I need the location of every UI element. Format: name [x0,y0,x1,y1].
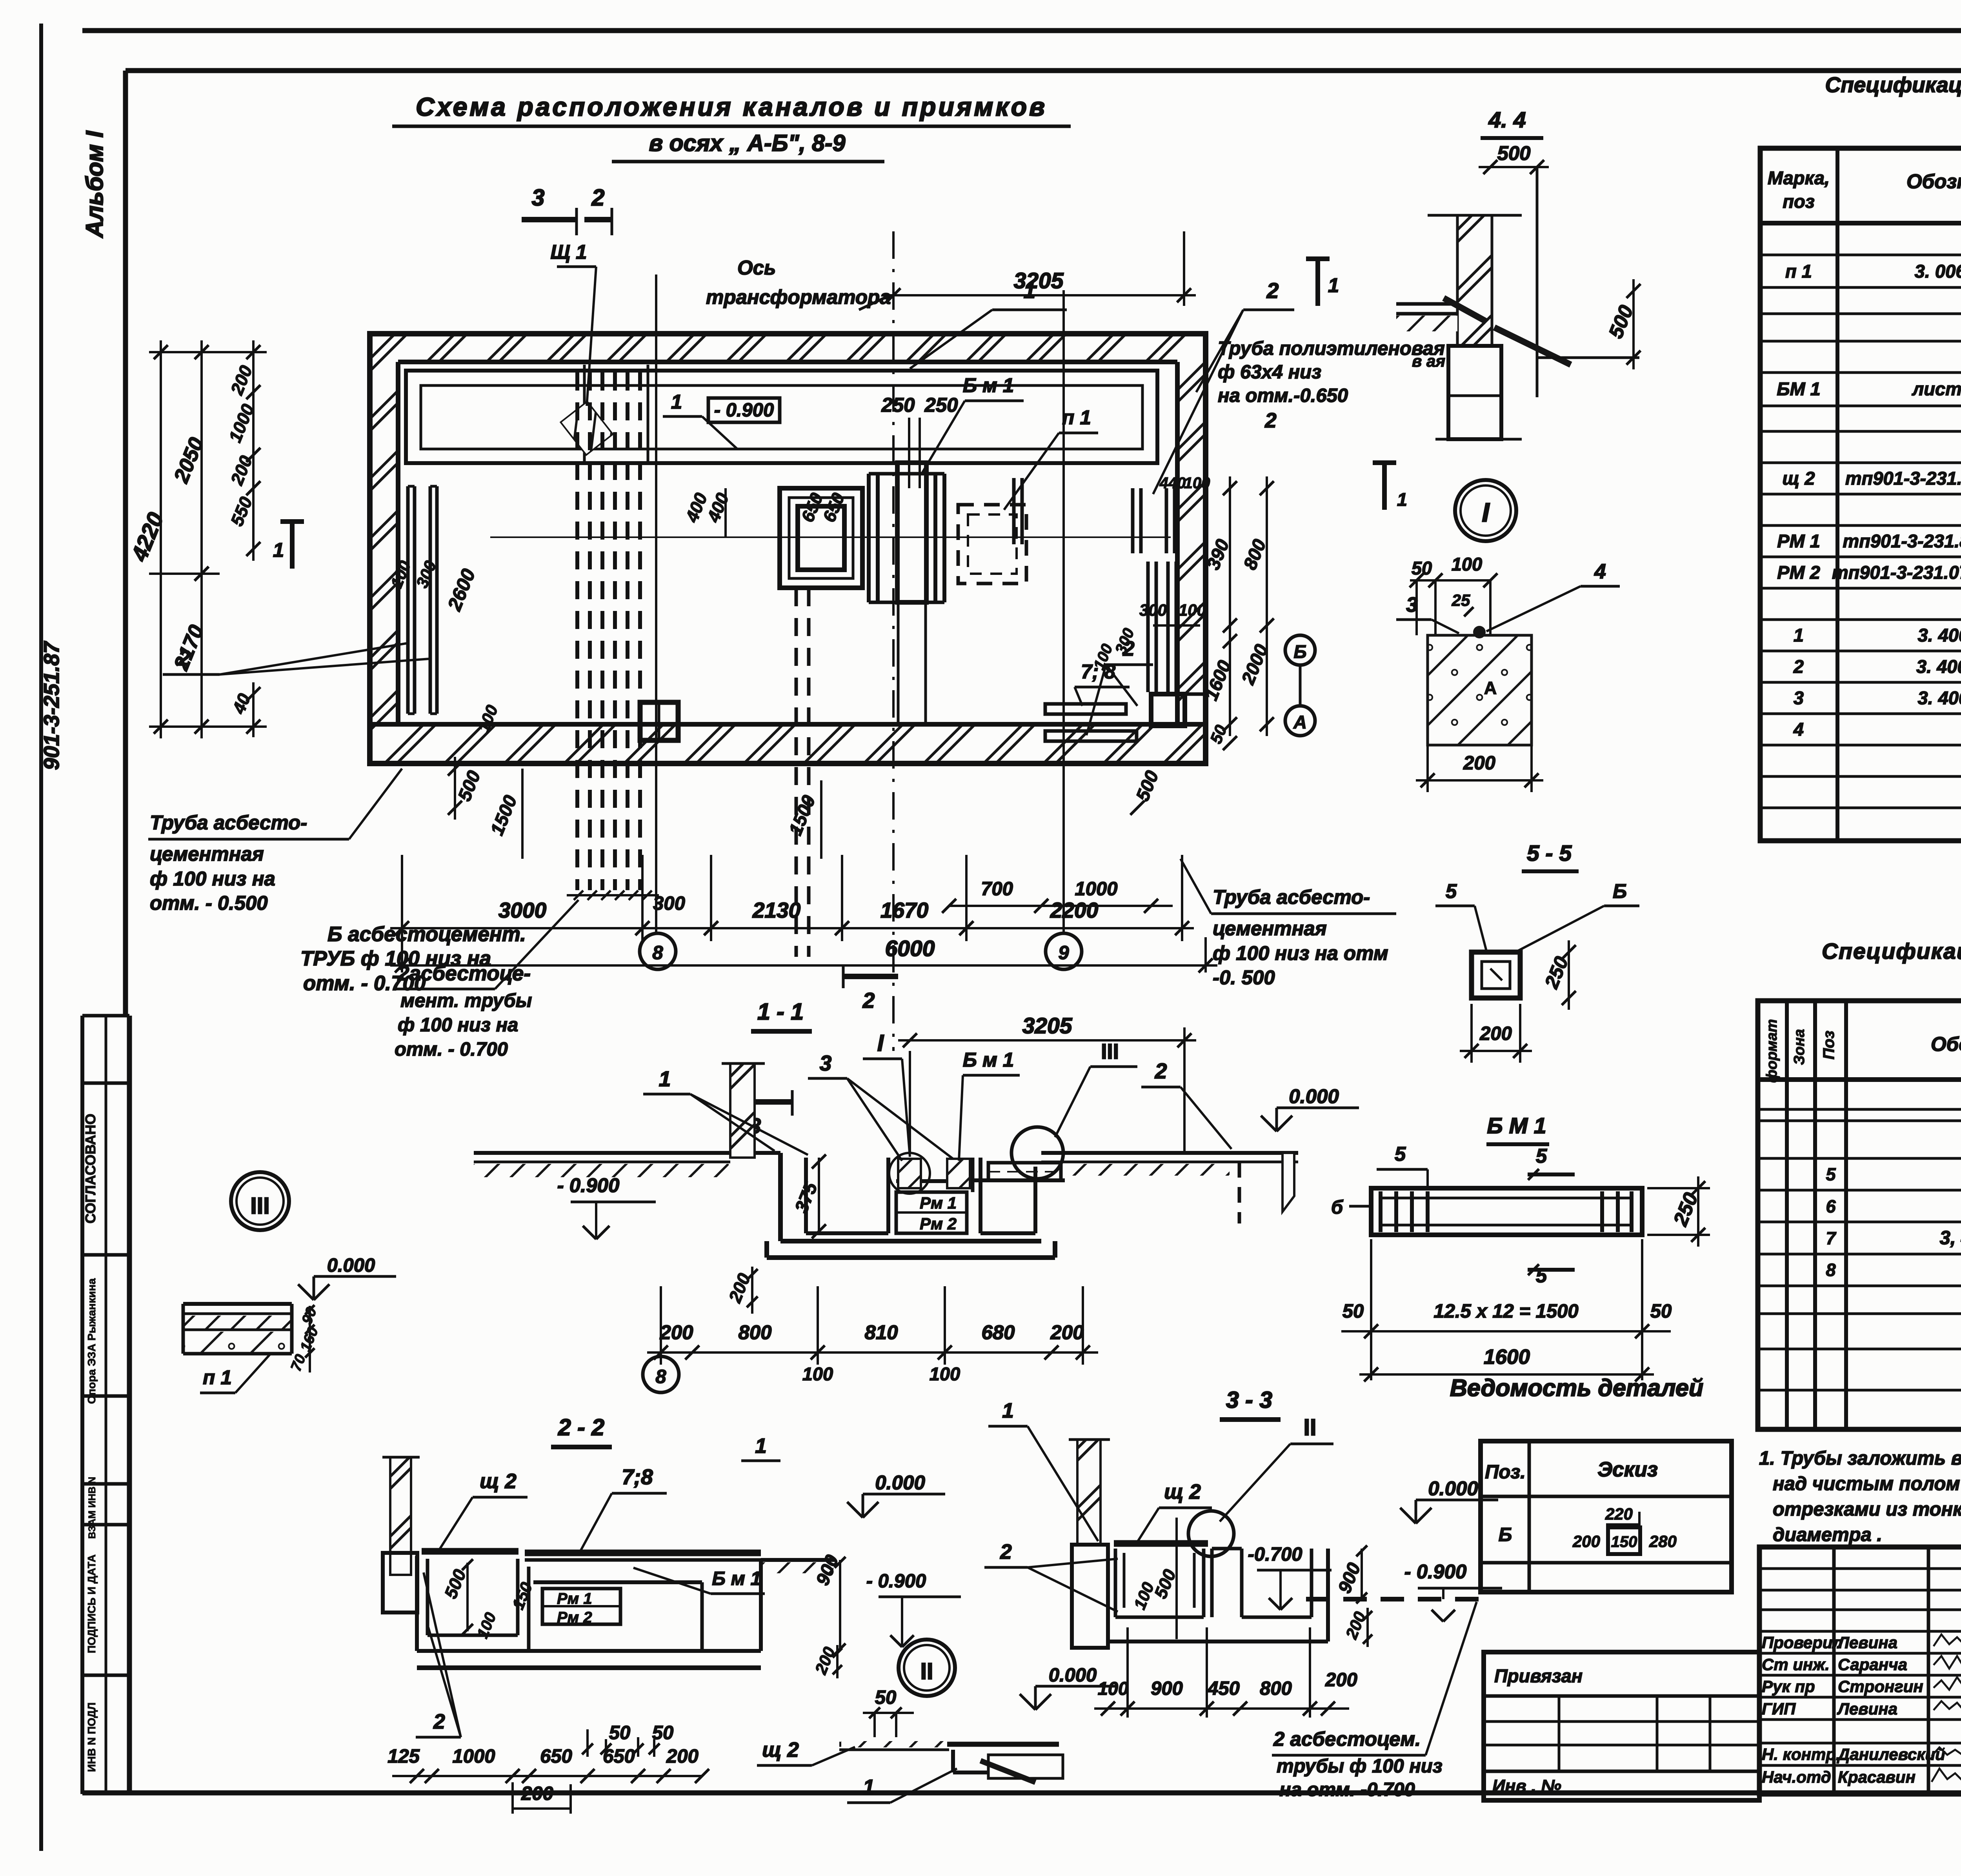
svg-text:III: III [1101,1039,1119,1063]
svg-text:тп901-3-231.07 кжи. 57.0.0.0:0: тп901-3-231.07 кжи. 57.0.0.0:01 [1832,562,1961,583]
svg-text:лист. кж - 32: лист. кж - 32 [1912,378,1961,399]
svg-text:4. 4: 4. 4 [1488,107,1526,133]
svg-text:Левина: Левина [1837,1700,1897,1718]
svg-text:Б м 1: Б м 1 [963,1049,1014,1071]
svg-text:Схема расположения каналов: Схема расположения каналов и приямков [416,92,1047,121]
svg-text:5: 5 [1446,880,1457,902]
svg-text:100: 100 [1452,554,1482,574]
svg-text:8: 8 [652,942,663,963]
svg-text:25: 25 [1452,591,1470,609]
svg-text:щ 2: щ 2 [480,1470,517,1493]
svg-text:-0. 500: -0. 500 [1213,966,1275,989]
svg-text:3. 400 - 6/ 76: 3. 400 - 6/ 76 [1918,625,1961,645]
svg-text:формат: формат [1764,1019,1780,1083]
svg-text:СОГЛАСОВАНО: СОГЛАСОВАНО [82,1114,98,1223]
svg-text:3, 400 - 6/ 76: 3, 400 - 6/ 76 [1940,1227,1961,1249]
svg-text:200: 200 [1325,1669,1357,1691]
svg-text:щ 2: щ 2 [1782,468,1815,489]
svg-text:1600: 1600 [1484,1345,1530,1369]
svg-text:0.000: 0.000 [1049,1665,1097,1686]
svg-text:отрезками из тонкостенных: отрезками из тонкостенных стальных труб … [1773,1499,1961,1520]
svg-text:6: 6 [1826,1196,1836,1216]
svg-text:Поз: Поз [1820,1031,1837,1060]
svg-text:Б: Б [1613,880,1627,902]
svg-text:5 - 5: 5 - 5 [1527,841,1572,866]
svg-text:1000: 1000 [1075,878,1117,900]
svg-text:650: 650 [540,1746,572,1767]
svg-text:Проверил: Проверил [1762,1633,1843,1652]
svg-text:220: 220 [1605,1505,1633,1523]
svg-text:250: 250 [924,394,958,416]
svg-text:Б м 1: Б м 1 [963,374,1014,396]
svg-text:0.000: 0.000 [327,1255,375,1276]
svg-text:Марка,: Марка, [1768,167,1830,188]
svg-text:2: 2 [1264,409,1276,432]
svg-text:3205: 3205 [1014,268,1064,293]
svg-text:900: 900 [1151,1678,1183,1699]
svg-text:8: 8 [1826,1260,1835,1280]
svg-text:тп901-3-231.87 кжи .52.0.0.0: тп901-3-231.87 кжи .52.0.0.0 [1845,468,1961,489]
svg-text:5: 5 [1536,1145,1547,1167]
svg-text:Стронгин: Стронгин [1838,1677,1923,1696]
svg-text:2: 2 [591,185,605,211]
svg-text:450: 450 [1207,1678,1240,1699]
svg-text:тп901-3-231.87 кжи. 57.0.0. 0: тп901-3-231.87 кжи. 57.0.0. 0 [1843,531,1961,551]
svg-text:700: 700 [981,878,1013,900]
svg-text:0.000: 0.000 [875,1471,925,1494]
svg-text:Рм 1: Рм 1 [920,1194,957,1212]
svg-text:Спецификация к схеме ра: Спецификация к схеме расположения приямк… [1825,73,1961,97]
svg-text:100: 100 [1098,1678,1128,1699]
svg-text:2: 2 [1266,278,1279,303]
svg-text:200: 200 [1050,1321,1084,1343]
svg-text:над чистым полом равен 200: над чистым полом равен 200 мм . Выходы т… [1773,1473,1961,1494]
svg-text:-0.700: -0.700 [1248,1544,1302,1565]
svg-text:1: 1 [659,1067,671,1091]
svg-text:1 - 1: 1 - 1 [757,999,804,1025]
svg-text:III: III [250,1193,269,1219]
svg-text:п 1: п 1 [203,1366,232,1389]
svg-text:440: 440 [1159,474,1186,492]
svg-text:ф 63х4 низ: ф 63х4 низ [1218,362,1321,383]
svg-text:1: 1 [863,1776,874,1799]
svg-text:2200: 2200 [1050,898,1099,922]
svg-text:ф 100 низ на отм: ф 100 низ на отм [1213,942,1388,964]
svg-text:2: 2 [433,1710,445,1733]
svg-text:цементная: цементная [1213,917,1327,940]
svg-text:РМ 2: РМ 2 [1777,562,1820,583]
svg-text:1: 1 [1397,489,1407,510]
svg-text:п 1: п 1 [1785,261,1812,282]
svg-text:12.5 х 12 = 1500: 12.5 х 12 = 1500 [1433,1301,1578,1322]
svg-text:Нач.отд: Нач.отд [1762,1768,1831,1786]
svg-text:Зона: Зона [1791,1029,1808,1065]
svg-text:цементная: цементная [150,843,264,865]
svg-text:3205: 3205 [1022,1013,1073,1038]
svg-text:Рук пр: Рук пр [1762,1677,1815,1696]
svg-text:4: 4 [1594,560,1606,583]
svg-text:800: 800 [738,1321,771,1343]
svg-text:2 асбестоцем.: 2 асбестоцем. [1273,1728,1421,1750]
svg-text:500: 500 [1497,142,1530,164]
svg-text:3: 3 [820,1051,832,1075]
svg-text:150: 150 [1611,1533,1637,1551]
svg-text:II: II [920,1658,933,1684]
svg-text:2: 2 [1155,1059,1167,1083]
svg-text:А: А [1293,712,1307,733]
svg-text:3: 3 [1794,687,1804,708]
svg-text:Б: Б [1293,641,1306,662]
svg-text:в ая: в ая [1412,352,1445,370]
svg-text:Ст инж.: Ст инж. [1762,1655,1830,1674]
svg-text:ВЗАМ ИНВ N: ВЗАМ ИНВ N [87,1477,98,1539]
svg-text:1: 1 [1024,278,1036,303]
svg-text:100: 100 [1179,601,1206,619]
svg-text:I: I [877,1030,884,1056]
svg-text:Саранча: Саранча [1838,1655,1907,1674]
svg-text:А: А [1484,678,1497,698]
svg-text:трансформатора: трансформатора [706,286,891,308]
svg-text:1: 1 [755,1434,766,1458]
svg-text:Инв . №: Инв . № [1492,1776,1561,1796]
svg-text:2: 2 [1000,1540,1011,1563]
svg-text:Данилевский: Данилевский [1837,1745,1945,1763]
svg-text:1: 1 [1328,274,1339,296]
svg-text:I: I [1482,498,1490,527]
svg-text:3. 400 - 6/ 76: 3. 400 - 6/ 76 [1918,687,1961,708]
svg-text:ИНВ N ПОДЛ: ИНВ N ПОДЛ [85,1702,98,1772]
svg-text:280: 280 [1649,1532,1677,1551]
svg-text:100: 100 [802,1363,833,1384]
svg-text:200: 200 [521,1783,553,1804]
svg-text:Труба полиэтиленовая: Труба полиэтиленовая [1218,338,1445,359]
svg-text:Н. контр.: Н. контр. [1762,1745,1841,1763]
svg-text:7: 7 [1826,1228,1836,1248]
svg-text:901-3-251.87: 901-3-251.87 [39,641,64,770]
svg-text:п 1: п 1 [1062,406,1091,429]
svg-text:РМ 1: РМ 1 [1777,531,1820,551]
svg-text:Спецификация монолитной: Спецификация монолитной балки БМ 1 [1822,939,1961,964]
svg-text:3000: 3000 [498,898,547,922]
svg-text:1670: 1670 [880,898,929,922]
svg-text:Труба асбесто-: Труба асбесто- [150,811,307,834]
svg-text:на отм. -0.700: на отм. -0.700 [1279,1779,1415,1800]
svg-text:Обозначение: Обозначение [1906,170,1961,193]
svg-text:щ 2: щ 2 [1164,1480,1201,1503]
svg-text:Привязан: Привязан [1494,1665,1583,1686]
svg-text:Рм 2: Рм 2 [920,1214,957,1233]
svg-text:диаметра .: диаметра . [1773,1524,1882,1545]
svg-text:4: 4 [1793,719,1804,740]
svg-text:мент. трубы: мент. трубы [400,990,532,1011]
svg-text:50: 50 [1343,1301,1364,1322]
svg-text:7;8: 7;8 [622,1465,653,1489]
svg-text:- 0.900: - 0.900 [866,1571,926,1592]
svg-text:2: 2 [862,988,875,1013]
svg-text:50: 50 [609,1722,631,1743]
svg-text:200: 200 [1479,1023,1512,1044]
svg-text:1: 1 [671,391,682,413]
svg-text:Ось: Ось [737,256,776,279]
svg-text:Рм 1: Рм 1 [557,1590,592,1607]
svg-text:щ 2: щ 2 [762,1738,799,1761]
svg-text:50: 50 [875,1687,897,1708]
svg-text:8: 8 [655,1366,666,1387]
svg-text:Поз.: Поз. [1485,1462,1526,1483]
svg-text:5: 5 [1395,1143,1406,1165]
svg-text:2: 2 [1793,656,1804,677]
svg-text:ф 100 низ на: ф 100 низ на [398,1014,518,1036]
svg-text:3. 006.1 - ²/82: 3. 006.1 - ²/82 [1915,261,1961,282]
svg-text:250: 250 [881,394,915,416]
svg-text:1000: 1000 [452,1746,495,1767]
svg-text:ф 100 низ на: ф 100 низ на [150,867,275,890]
svg-text:отм. - 0.500: отм. - 0.500 [150,892,268,914]
svg-text:3. 400 - Б/ 76: 3. 400 - Б/ 76 [1916,656,1961,677]
svg-text:0.000: 0.000 [1289,1085,1339,1107]
svg-text:680: 680 [981,1321,1015,1343]
svg-text:200: 200 [1463,753,1495,774]
svg-text:50: 50 [1650,1301,1672,1322]
svg-text:2130: 2130 [752,898,801,922]
svg-text:- 0.900: - 0.900 [557,1174,620,1196]
svg-text:Обозначение: Обозначение [1931,1033,1961,1055]
svg-text:БМ 1: БМ 1 [1777,378,1821,399]
svg-text:Труба асбесто-: Труба асбесто- [1213,886,1370,908]
svg-text:Эскиз: Эскиз [1597,1458,1658,1481]
svg-text:Альбом I: Альбом I [81,131,108,238]
svg-text:отм. - 0.700: отм. - 0.700 [395,1039,508,1060]
svg-text:- 0.900: - 0.900 [714,400,774,421]
svg-text:300: 300 [1139,601,1167,619]
svg-text:1: 1 [1002,1399,1013,1422]
svg-text:3: 3 [532,185,545,211]
svg-text:200: 200 [659,1321,693,1343]
svg-text:Б м 1: Б м 1 [712,1568,761,1589]
svg-text:100: 100 [1184,474,1210,492]
svg-text:Б асбестоцемент.: Б асбестоцемент. [327,923,526,946]
svg-text:200: 200 [1572,1532,1600,1551]
svg-text:поз: поз [1783,191,1814,212]
svg-text:Опора ЭЗА Рыжанкина: Опора ЭЗА Рыжанкина [85,1278,98,1404]
svg-text:3: 3 [1406,593,1417,616]
svg-text:- 0.900: - 0.900 [1404,1560,1467,1583]
svg-text:810: 810 [864,1321,898,1343]
svg-text:Ведомость деталей: Ведомость деталей [1450,1374,1703,1401]
svg-text:9: 9 [1058,942,1069,963]
svg-text:II: II [1304,1414,1317,1440]
svg-text:0.000: 0.000 [1428,1477,1478,1500]
svg-text:трубы ф 100 низ: трубы ф 100 низ [1277,1756,1443,1777]
svg-text:Щ 1: Щ 1 [551,241,587,263]
svg-text:125: 125 [387,1746,420,1767]
svg-text:800: 800 [1260,1678,1292,1699]
svg-text:б: б [1331,1197,1344,1218]
svg-text:100: 100 [930,1363,960,1384]
svg-text:ГИП: ГИП [1762,1700,1796,1718]
svg-text:6000: 6000 [885,936,935,961]
svg-text:3 - 3: 3 - 3 [1226,1387,1272,1413]
svg-text:1. Трубы заложить в бетонно: 1. Трубы заложить в бетонной подготовке … [1759,1448,1961,1469]
svg-text:Б: Б [1499,1524,1512,1545]
svg-text:ПОДПИСЬ И ДАТА: ПОДПИСЬ И ДАТА [85,1554,98,1653]
svg-text:1: 1 [1794,625,1804,645]
svg-text:1: 1 [273,539,284,561]
svg-text:5: 5 [1826,1164,1836,1184]
svg-text:Левина: Левина [1837,1633,1897,1652]
svg-text:2 - 2: 2 - 2 [558,1414,604,1440]
svg-text:200: 200 [666,1746,699,1767]
svg-text:Красавин: Красавин [1838,1768,1916,1786]
svg-text:на отм.-0.650: на отм.-0.650 [1218,385,1348,406]
svg-text:Б М 1: Б М 1 [1487,1113,1546,1138]
svg-text:Рм 2: Рм 2 [557,1609,592,1626]
svg-text:в осях „ А-Б", 8-9: в осях „ А-Б", 8-9 [649,130,846,156]
